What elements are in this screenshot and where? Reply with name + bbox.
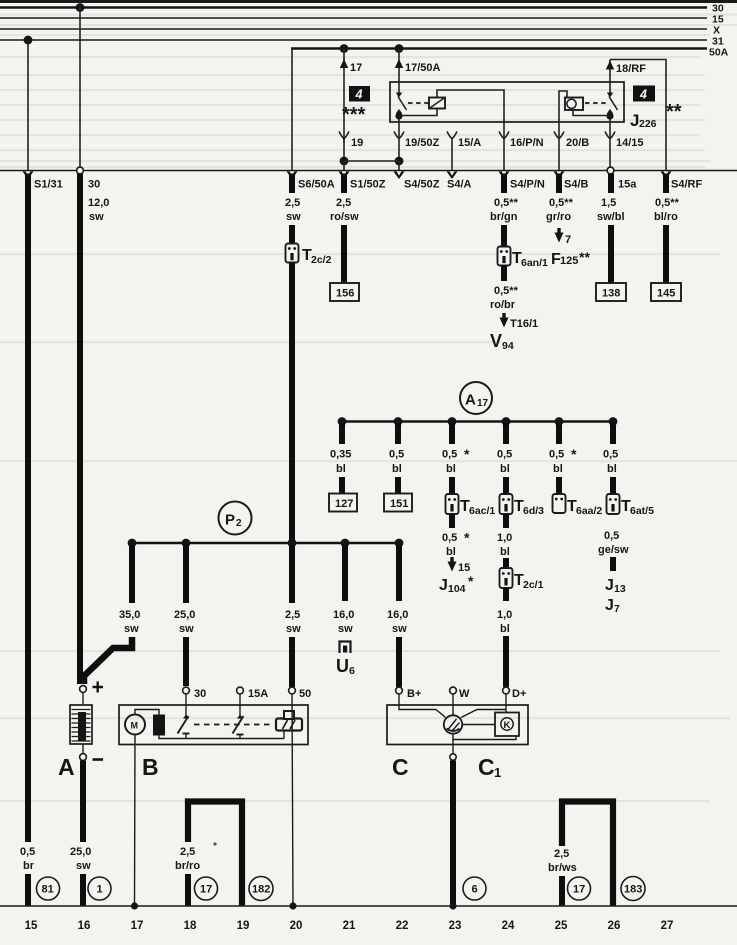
connector T6aa/2 <box>553 494 566 513</box>
ground point 17 <box>568 877 591 900</box>
svg-text:127: 127 <box>335 498 353 510</box>
terminal S6/50A <box>287 172 298 180</box>
terminal S4/RF <box>661 172 672 180</box>
svg-text:16,0: 16,0 <box>333 609 354 621</box>
node P2 x399 <box>395 539 404 548</box>
svg-text:sw: sw <box>76 860 91 872</box>
A17 stub x506 <box>503 423 509 444</box>
svg-text:ro/sw: ro/sw <box>330 211 359 223</box>
P2 bus <box>132 542 399 545</box>
svg-text:*: * <box>464 530 470 546</box>
wire 0,5 gr/ro (S4/B chain) <box>556 174 562 194</box>
svg-text:S4/50Z: S4/50Z <box>404 179 440 191</box>
svg-text:16/P/N: 16/P/N <box>510 137 544 149</box>
wire S1/31 drop <box>27 40 29 170</box>
svg-text:0,5: 0,5 <box>497 449 512 461</box>
svg-text:0,5: 0,5 <box>389 449 404 461</box>
svg-text:C: C <box>392 754 409 780</box>
svg-text:K: K <box>504 720 511 731</box>
svg-text:183: 183 <box>624 884 642 896</box>
svg-text:156: 156 <box>336 288 354 300</box>
terminal S1/31 <box>23 172 34 180</box>
wire 0,5 br/gn (S4/P/N chain) <box>501 174 507 194</box>
svg-text:6d/3: 6d/3 <box>523 505 544 517</box>
svg-text:br/ws: br/ws <box>548 862 577 874</box>
wire 18/RF corner to S4/RF <box>610 60 666 171</box>
generator symbol <box>444 715 462 733</box>
box 138 <box>596 283 626 301</box>
field winding <box>153 715 165 736</box>
svg-text:6: 6 <box>472 884 478 896</box>
svg-text:26: 26 <box>608 920 621 932</box>
svg-text:bl: bl <box>392 463 402 475</box>
fork 20/B <box>554 132 564 139</box>
svg-text:1,5: 1,5 <box>601 197 616 209</box>
svg-text:27: 27 <box>661 920 674 932</box>
svg-text:21: 21 <box>343 920 356 932</box>
svg-text:81: 81 <box>42 884 54 896</box>
node track 17 <box>131 902 138 909</box>
node A17 x559 <box>555 417 564 426</box>
C terminal D+ <box>503 687 510 694</box>
connector T6d/3 <box>500 494 513 514</box>
svg-text:*: * <box>464 446 470 462</box>
ground point 6 <box>463 877 486 900</box>
bus 50A <box>291 47 707 50</box>
svg-text:W: W <box>459 688 470 700</box>
svg-text:30: 30 <box>88 179 100 191</box>
connector T6an/1 <box>498 247 511 266</box>
A17 stub x342 <box>339 423 345 444</box>
svg-text:125: 125 <box>560 255 578 267</box>
svg-text:13: 13 <box>614 583 626 595</box>
wire 16,0 sw (P2 to C term B+) <box>396 545 402 601</box>
terminal 30 <box>77 167 84 174</box>
ground point 81 <box>37 877 60 900</box>
svg-text:1: 1 <box>97 884 103 896</box>
svg-text:A: A <box>58 754 75 780</box>
svg-text:J: J <box>605 577 614 594</box>
node 19/50Z <box>395 157 404 166</box>
svg-text:14/15: 14/15 <box>616 137 644 149</box>
svg-text:17: 17 <box>131 920 144 932</box>
svg-text:15A: 15A <box>248 688 268 700</box>
svg-text:S4/RF: S4/RF <box>671 179 702 191</box>
svg-text:0,35: 0,35 <box>330 449 351 461</box>
B terminal 15A <box>237 687 244 694</box>
svg-text:22: 22 <box>396 920 409 932</box>
connector T2c/2 <box>286 244 299 263</box>
svg-text:17/50A: 17/50A <box>405 62 441 74</box>
wire 2,5 ro/sw (S1/50Z to 156) <box>341 174 347 194</box>
svg-text:7: 7 <box>614 603 620 615</box>
svg-text:24: 24 <box>502 920 515 932</box>
svg-text:2c/1: 2c/1 <box>523 579 544 591</box>
svg-text:**: ** <box>579 249 590 265</box>
svg-text:2: 2 <box>236 518 242 529</box>
C terminal B+ <box>396 687 403 694</box>
ground point 17 <box>195 877 218 900</box>
svg-text:2,5: 2,5 <box>336 197 351 209</box>
generator bottom wires <box>453 734 516 754</box>
svg-text:17: 17 <box>350 62 362 74</box>
fork 16/P/N <box>499 132 509 139</box>
wire 0,5 ro/br <box>501 266 507 281</box>
svg-text:50: 50 <box>299 688 311 700</box>
svg-text:2,5: 2,5 <box>285 609 300 621</box>
svg-text:6: 6 <box>349 665 355 677</box>
node P2 x292 <box>288 539 297 548</box>
wire 16,0 sw (P2 to U6) <box>342 545 348 601</box>
svg-text:bl: bl <box>500 623 510 635</box>
svg-text:6aa/2: 6aa/2 <box>576 505 602 517</box>
B terminal 30 <box>183 687 190 694</box>
node P2 x345 <box>341 539 350 548</box>
switch dashes <box>194 724 274 726</box>
wire link 19 to 19/50Z <box>344 160 399 162</box>
terminal S4/50Z <box>394 172 405 180</box>
svg-text:bl: bl <box>500 546 510 558</box>
svg-text:4: 4 <box>639 88 647 102</box>
wire 17 <box>343 49 345 162</box>
svg-text:16: 16 <box>78 920 91 932</box>
box 145 <box>651 283 681 301</box>
svg-text:J: J <box>439 577 448 594</box>
bus 31 <box>0 39 707 41</box>
node on bus 31 <box>24 36 33 45</box>
A17 stub x559 <box>556 423 562 444</box>
wire 15/A stub <box>447 132 457 171</box>
starter box B <box>119 705 308 745</box>
right coil top wire to 20/B <box>559 91 567 170</box>
svg-text:*: * <box>468 573 474 589</box>
relay symbol 4 (black box) <box>349 86 370 102</box>
A17 stub x452 <box>449 423 455 444</box>
svg-text:138: 138 <box>602 288 620 300</box>
wire 0,5 bl/ro (S4/RF to 145) <box>663 174 669 194</box>
svg-text:S4/P/N: S4/P/N <box>510 179 545 191</box>
node P2 x186 <box>182 539 191 548</box>
svg-text:0,5: 0,5 <box>604 530 619 542</box>
battery + terminal <box>80 686 87 693</box>
node 17/50A on bus 50A <box>395 44 404 53</box>
svg-text:S1/31: S1/31 <box>34 179 63 191</box>
svg-text:D+: D+ <box>512 688 526 700</box>
B+ internal wire <box>399 694 446 718</box>
bus X <box>0 28 707 30</box>
connector T2c/1 <box>500 568 513 588</box>
right relay coil <box>565 98 583 111</box>
svg-text:sw: sw <box>124 623 139 635</box>
connector arrow 7 <box>557 228 560 234</box>
svg-text:***: *** <box>342 104 366 126</box>
left relay coil dashes <box>408 102 429 104</box>
svg-text:94: 94 <box>502 340 514 352</box>
svg-text:15/A: 15/A <box>458 137 481 149</box>
svg-text:17: 17 <box>573 884 585 896</box>
svg-text:20: 20 <box>290 920 303 932</box>
positive connection P2 <box>219 502 252 535</box>
fork 19 <box>339 132 349 144</box>
svg-text:25,0: 25,0 <box>174 609 195 621</box>
svg-text:J: J <box>605 597 614 614</box>
svg-text:br/gn: br/gn <box>490 211 518 223</box>
svg-text:bl/ro: bl/ro <box>654 211 678 223</box>
A17 stub x398 <box>395 423 401 444</box>
box 127 <box>329 494 357 512</box>
W internal wire <box>452 694 454 716</box>
svg-text:S4/B: S4/B <box>564 179 589 191</box>
svg-text:bl: bl <box>607 463 617 475</box>
wire 1,5 sw/bl (15a to 138) <box>608 174 614 194</box>
svg-text:sw: sw <box>286 623 301 635</box>
starter motor M <box>125 715 145 735</box>
bus 15 <box>0 17 707 19</box>
alternator box C <box>387 705 528 745</box>
ground point 1 <box>88 877 111 900</box>
left relay switch contact <box>396 93 402 98</box>
connector U6 <box>340 642 351 654</box>
svg-text:0,5: 0,5 <box>549 449 564 461</box>
svg-text:2,5: 2,5 <box>180 846 195 858</box>
svg-text:B+: B+ <box>407 688 421 700</box>
svg-text:gr/ro: gr/ro <box>546 211 571 223</box>
svg-text:20/B: 20/B <box>566 137 589 149</box>
terminal S1/50Z <box>339 172 350 180</box>
svg-text:ro/br: ro/br <box>490 299 516 311</box>
ignition switch contact 1 <box>185 694 187 717</box>
node P2 x132 <box>128 539 137 548</box>
fork 14/15 <box>605 132 615 139</box>
svg-text:P: P <box>225 512 235 529</box>
svg-text:ge/sw: ge/sw <box>598 544 629 556</box>
top border bar <box>0 0 737 3</box>
relay symbol 4 right (black box) <box>633 86 655 102</box>
svg-text:30: 30 <box>194 688 206 700</box>
D+ internal wire <box>461 694 506 718</box>
svg-text:1: 1 <box>494 765 501 780</box>
svg-text:T16/1: T16/1 <box>510 318 538 330</box>
connector arrow 15 <box>450 557 453 563</box>
B terminal 50 <box>289 687 296 694</box>
node track 23 <box>449 902 456 909</box>
node A17 x506 <box>502 417 511 426</box>
box 156 <box>330 283 359 301</box>
ground point 182 <box>249 877 273 901</box>
svg-text:19/50Z: 19/50Z <box>405 137 440 149</box>
bottom track line <box>0 905 737 907</box>
svg-text:sw/bl: sw/bl <box>597 211 625 223</box>
ignition switch contact 2 <box>233 716 244 734</box>
wire 25,0 sw (P2 to B term 30) <box>183 545 189 603</box>
svg-text:0,5**: 0,5** <box>494 197 519 209</box>
track numbers <box>25 920 674 932</box>
svg-text:6ac/1: 6ac/1 <box>469 505 495 517</box>
svg-text:sw: sw <box>392 623 407 635</box>
node 19 <box>340 157 349 166</box>
svg-text:12,0: 12,0 <box>88 197 109 209</box>
terminal S4/B <box>554 172 565 180</box>
svg-text:bl: bl <box>446 546 456 558</box>
svg-text:17: 17 <box>200 884 212 896</box>
left coil bottom wire <box>399 109 437 116</box>
svg-text:U: U <box>336 656 349 676</box>
svg-text:1,0: 1,0 <box>497 532 512 544</box>
svg-text:2,5: 2,5 <box>285 197 300 209</box>
C bottom terminal <box>450 754 456 760</box>
svg-text:0,5: 0,5 <box>603 449 618 461</box>
svg-text:25: 25 <box>555 920 568 932</box>
svg-text:*: * <box>571 446 577 462</box>
wire 12,0 sw (30 down to battery +) <box>77 174 83 685</box>
terminal 15a <box>607 167 614 174</box>
generator to regulator wire <box>462 724 495 726</box>
control unit A17 <box>460 382 492 414</box>
wire 2,5 br/ws (tracks 25-26 strap) <box>562 802 613 907</box>
wire 1,0 bl <box>503 514 509 528</box>
svg-text:S4/A: S4/A <box>447 179 472 191</box>
svg-text:6at/5: 6at/5 <box>630 505 654 517</box>
svg-text:bl: bl <box>446 463 456 475</box>
svg-text:226: 226 <box>639 118 657 130</box>
svg-text:1,0: 1,0 <box>497 609 512 621</box>
node A17 x398 <box>394 417 403 426</box>
A17 stub x613 <box>610 423 616 444</box>
node A17 x342 <box>338 417 347 426</box>
svg-text:0,5**: 0,5** <box>494 285 519 297</box>
svg-text:18/RF: 18/RF <box>616 63 646 75</box>
wire 35,0 sw (P2 to battery +) <box>129 545 135 603</box>
svg-text:145: 145 <box>657 288 675 300</box>
wire B motor to track 17 <box>134 735 137 907</box>
terminal S4/P/N <box>499 172 510 180</box>
svg-text:19: 19 <box>351 137 363 149</box>
node A17 x452 <box>448 417 457 426</box>
svg-text:**: ** <box>666 101 682 123</box>
wire C to track 23 <box>450 761 456 907</box>
wire 18/RF <box>609 60 611 96</box>
right relay switch contact <box>607 93 613 98</box>
svg-text:182: 182 <box>252 884 270 896</box>
node A17 x613 <box>609 417 618 426</box>
regulator box K <box>495 713 519 737</box>
motor to field link <box>135 710 159 715</box>
svg-text:16,0: 16,0 <box>387 609 408 621</box>
svg-text:15a: 15a <box>618 179 637 191</box>
connector T6at/5 <box>607 494 620 514</box>
svg-text:18: 18 <box>184 920 197 932</box>
terminal S4/A <box>447 172 458 180</box>
fork 19/50Z <box>394 132 404 139</box>
svg-text:C: C <box>478 754 495 780</box>
wire 2,5 sw (S6/50A down to B term 50) <box>289 174 295 194</box>
A17 bus <box>342 420 613 423</box>
svg-text:sw: sw <box>89 211 104 223</box>
svg-text:sw: sw <box>286 211 301 223</box>
B bottom rail <box>159 734 284 739</box>
bus 30 <box>0 6 707 9</box>
svg-text:23: 23 <box>449 920 462 932</box>
right relay coil dashes <box>585 102 607 104</box>
section divider line <box>0 170 737 172</box>
battery A <box>82 693 84 706</box>
svg-text:sw: sw <box>179 623 194 635</box>
wire 1,0 bl lower to D+ <box>503 588 509 601</box>
connector T16/1 <box>502 313 505 319</box>
svg-text:0,5: 0,5 <box>442 449 457 461</box>
svg-text:35,0: 35,0 <box>119 609 140 621</box>
left coil top wire to 16/P/N <box>437 90 504 170</box>
svg-text:S1/50Z: S1/50Z <box>350 179 386 191</box>
svg-text:sw: sw <box>338 623 353 635</box>
svg-text:2,5: 2,5 <box>554 848 569 860</box>
wire 25,0 sw (battery - to track 16) <box>80 761 86 843</box>
ground point 183 <box>621 877 645 901</box>
svg-text:S6/50A: S6/50A <box>298 179 335 191</box>
svg-text:7: 7 <box>565 234 571 246</box>
node on bus 30 <box>76 3 85 12</box>
wire 17/50A <box>398 49 400 96</box>
svg-text:19: 19 <box>237 920 250 932</box>
svg-text:151: 151 <box>390 498 408 510</box>
box 151 <box>384 494 412 512</box>
svg-text:0,5**: 0,5** <box>549 197 574 209</box>
svg-text:A: A <box>465 392 476 409</box>
svg-text:V: V <box>490 331 502 351</box>
node 17 on bus 50A <box>340 44 349 53</box>
svg-text:17: 17 <box>477 398 489 409</box>
wire 2,5 br/ro (tracks 18-19 strap) <box>188 802 242 907</box>
right coil bottom wire <box>573 110 610 116</box>
ignition key symbol <box>276 719 302 731</box>
svg-text:4: 4 <box>355 88 363 102</box>
wire 30 drop <box>79 8 81 171</box>
wire 0,5 br (S1/31 down to track 15) <box>25 174 31 843</box>
svg-text:bl: bl <box>500 463 510 475</box>
svg-text:B: B <box>142 754 159 780</box>
svg-text:104: 104 <box>448 583 466 595</box>
left relay coil <box>429 98 445 109</box>
connector T6ac/1 <box>446 494 459 514</box>
svg-text:25,0: 25,0 <box>70 846 91 858</box>
battery - terminal <box>80 754 87 761</box>
svg-text:br: br <box>23 860 35 872</box>
svg-text:2c/2: 2c/2 <box>311 254 332 266</box>
svg-text:bl: bl <box>336 463 346 475</box>
C terminal W <box>450 687 457 694</box>
wire S6/50A riser <box>291 49 293 171</box>
svg-text:0,5**: 0,5** <box>655 197 680 209</box>
relay box J226 <box>390 82 624 122</box>
wire B 50 to track 20 <box>292 694 293 906</box>
node track 20 <box>289 902 296 909</box>
svg-text:bl: bl <box>553 463 563 475</box>
wire 0,5* bl lower <box>449 514 455 528</box>
svg-text:M: M <box>131 721 139 731</box>
svg-text:6an/1: 6an/1 <box>521 257 548 269</box>
svg-text:50A: 50A <box>709 47 729 59</box>
svg-text:15: 15 <box>25 920 38 932</box>
svg-text:0,5: 0,5 <box>442 532 457 544</box>
svg-text:br/ro: br/ro <box>175 860 200 872</box>
svg-text:0,5: 0,5 <box>20 846 35 858</box>
